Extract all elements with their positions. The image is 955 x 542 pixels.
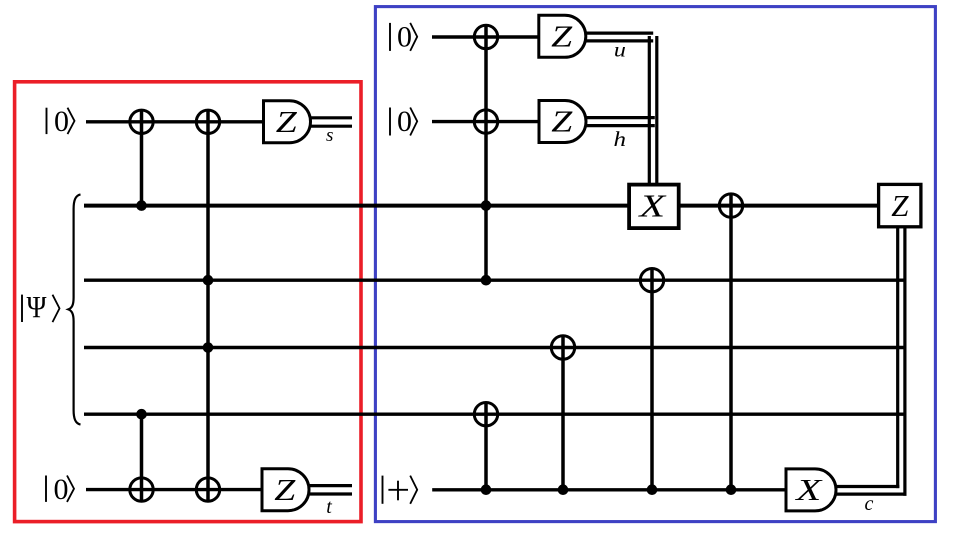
CNOT target q5 col4 — [551, 336, 574, 359]
classical double wire c horizontal — [834, 485, 899, 488]
ket |+> blue bottom — [383, 476, 418, 504]
svg-text:X: X — [637, 188, 668, 223]
measurement meter Z (u) on q1 — [539, 15, 586, 57]
svg-text:t: t — [326, 496, 332, 518]
classical vertical pair into X gate — [648, 36, 651, 184]
control dot q7 col5 — [647, 484, 658, 495]
control line col1 lower (q6->q7) — [140, 414, 144, 500]
wire q1 (blue ancilla |0> top, y=37) — [432, 35, 541, 38]
svg-text:Z: Z — [551, 19, 573, 54]
CNOT target q2blue col3 — [474, 110, 497, 133]
CNOT target q3 col6 — [719, 194, 742, 217]
control line col3 upper (q1->q4) — [484, 26, 488, 280]
svg-text:s: s — [326, 125, 333, 146]
svg-text:Z: Z — [276, 104, 298, 139]
control line col4 (q5->q7) — [561, 337, 565, 490]
svg-text:0: 0 — [397, 21, 412, 54]
wire q7 blue segment (|+> ancilla) — [432, 488, 786, 491]
control dot q7 col3 — [481, 484, 492, 495]
CNOT target q2 col1 — [130, 110, 153, 133]
svg-text:0: 0 — [397, 105, 412, 138]
control dot q7 col6 — [726, 484, 737, 495]
control dot q5 col2 — [203, 342, 214, 353]
ket |Psi> input label — [22, 289, 60, 324]
ket |0> blue top — [390, 21, 417, 54]
ket |0> red top — [47, 105, 75, 138]
svg-text:h: h — [614, 127, 627, 151]
wire q3 (Psi line 1, y=205.6) — [84, 204, 879, 208]
svg-text:Z: Z — [274, 472, 296, 507]
classical double wire h — [584, 116, 655, 119]
wire q6 (Psi line 4, y=414.2) — [84, 413, 907, 416]
classically controlled Z gate on q3 — [879, 184, 921, 226]
svg-text:Ψ: Ψ — [27, 289, 47, 324]
control dot q3 col3 — [481, 200, 492, 211]
control dot q3 col1 — [136, 200, 147, 211]
brace grouping Psi wires — [68, 194, 80, 424]
control dot q4 col2 — [203, 275, 214, 286]
svg-text:0: 0 — [54, 105, 69, 138]
svg-text:Z: Z — [551, 104, 573, 139]
blue region box (syndrome/correction block) — [375, 7, 935, 522]
CNOT target q7 col1 — [130, 478, 153, 501]
classical double wire s (y 117.8/126.2) — [311, 116, 352, 119]
red dashed-region box (encoder block) — [15, 82, 361, 522]
CNOT target q4 col5 — [640, 269, 663, 292]
control line col1 upper (q2->q3) — [140, 111, 144, 206]
control line col5 (q4->q7) — [650, 269, 654, 490]
CNOT target q6 col3 — [474, 403, 497, 426]
classically controlled X gate on q3 — [629, 185, 679, 229]
svg-text:u: u — [614, 40, 626, 62]
classical double wire u — [584, 31, 653, 34]
wire q5 (Psi line 3, y=347.5) — [84, 346, 907, 349]
wire q2 red segment (|0> ancilla, y=121.8) — [86, 120, 266, 123]
CNOT target q7 col2 — [196, 478, 219, 501]
control dot q6 col1 — [136, 409, 147, 420]
measurement meter X (c) on q7 blue — [786, 469, 836, 511]
CNOT target q1 col3 — [474, 25, 497, 48]
svg-text:Z: Z — [891, 188, 909, 223]
control dot q7 col4 — [558, 484, 569, 495]
ket |0> blue second — [390, 105, 417, 138]
control line col3 lower (q6->q7) — [484, 403, 488, 490]
classical double wire t — [309, 484, 352, 487]
wire q4 (Psi line 2, y=280.2) — [84, 279, 907, 282]
ket |0> red bottom — [46, 473, 74, 506]
CNOT target q2 col2 — [196, 110, 219, 133]
measurement meter Z (h) on q2 blue — [539, 101, 586, 143]
measurement meter Z (s) on q2 — [264, 101, 311, 143]
control line col6 (q3->q7) — [729, 195, 733, 490]
svg-text:0: 0 — [54, 473, 69, 506]
wire q2 blue segment (|0> ancilla) — [432, 120, 541, 123]
classical vertical pair from Z gate to c wire — [896, 227, 899, 488]
svg-text:c: c — [865, 493, 874, 515]
svg-text:X: X — [794, 472, 823, 507]
control line col2 (q2->q7) — [206, 111, 210, 501]
measurement meter Z (t) on q7 — [262, 469, 309, 511]
wire q7 red segment (|0> ancilla bottom, y=489.6) — [86, 488, 264, 491]
control dot q4 col3 — [481, 275, 492, 286]
